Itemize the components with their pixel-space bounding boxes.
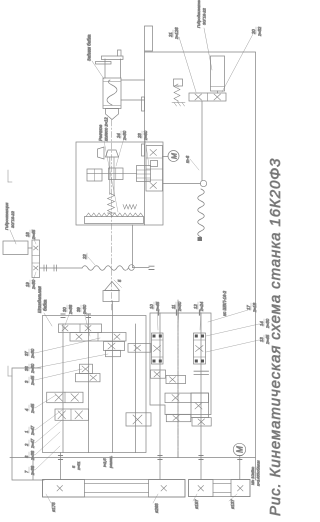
svg-text:4: 4 (24, 408, 29, 411)
AKC gear bar shaft3 left (192, 418, 211, 426)
headstock gear bar 7 (47, 392, 83, 403)
svg-text:z=30: z=30 (122, 130, 127, 141)
pump shaft stub (32, 458, 34, 480)
svg-text:М: М (171, 153, 178, 159)
svg-text:11: 11 (171, 305, 176, 309)
feed drive motor (top) (3, 241, 32, 255)
svg-text:17: 17 (246, 305, 251, 310)
svg-text:Гидростанция: Гидростанция (4, 202, 9, 230)
svg-text:19: 19 (25, 282, 30, 287)
svg-text:30: 30 (62, 307, 67, 312)
tailstock body with screw (103, 78, 121, 109)
shaft I stub: belt A top pulley to headstock (60, 453, 62, 480)
svg-text:z=126: z=126 (174, 27, 179, 40)
AKC gear bar shaft 2 (166, 375, 186, 383)
workpiece centerline (111, 120, 113, 310)
svg-text:18: 18 (25, 232, 30, 237)
worm-wheel gear block upper (87, 169, 102, 181)
apron splined shaft (110, 157, 114, 195)
svg-text:нс ШВП-16-2: нс ШВП-16-2 (222, 290, 227, 316)
small ratio labels near wall (71, 456, 113, 471)
svg-text:ремен.: ремен. (108, 456, 113, 469)
bevel gear pair (98, 147, 119, 159)
svg-text:z=47: z=47 (30, 425, 35, 436)
label: tailstock (87, 34, 105, 79)
feed gear strip (32, 240, 40, 278)
apron clutch block (109, 168, 124, 180)
svg-text:z=60: z=60 (30, 363, 35, 374)
svg-text:7: 7 (24, 470, 29, 473)
bearing hash marks on wall crossings (59, 456, 242, 460)
rack pinion teeth (123, 205, 137, 210)
svg-text:2: 2 (24, 443, 29, 447)
svg-text:1: 1 (24, 431, 29, 433)
svg-text:z=47: z=47 (30, 438, 35, 449)
footnote ratio labels below frame (206, 302, 270, 352)
svg-text:Реечное: Реечное (98, 124, 103, 141)
headstock gear bar 1 (shaft I-II double) (59, 324, 102, 333)
svg-text:39: 39 (76, 307, 81, 312)
tailstock barrel (96, 50, 124, 78)
caption (267, 158, 284, 516)
headstock gear bar 6 (76, 374, 101, 382)
svg-text:z=38: z=38 (30, 450, 35, 461)
apron / feed box (76, 142, 163, 225)
apron rack-pinion spring (108, 193, 116, 213)
svg-text:3: 3 (24, 380, 29, 383)
apron labels (98, 117, 149, 212)
svg-text:n=1465об/мин: n=1465об/мин (256, 460, 261, 486)
feed strip labels (25, 229, 95, 290)
tailstock quill tip (106, 109, 119, 120)
clutch block upper (with friction discs) (152, 333, 164, 364)
svg-text:z=32: z=32 (257, 26, 262, 37)
svg-text:Шпиндельная: Шпиндельная (37, 286, 42, 313)
rack bar (85, 213, 144, 224)
belt drive A (main, to headstock input shaft) (43, 480, 186, 498)
gear ratio labels above headstock (24, 304, 108, 476)
svg-text:12: 12 (193, 304, 198, 309)
svg-text:ø268: ø268 (154, 503, 159, 513)
label 16 z32 (222, 26, 262, 92)
bed way pads (142, 97, 145, 156)
svg-text:z=18: z=18 (252, 302, 257, 313)
tension spring with anchor (172, 79, 185, 106)
chuck body (103, 279, 122, 302)
headstock gear bar 2 (shaft II-spindle) (70, 333, 126, 342)
main motor M circle (233, 443, 245, 455)
svg-text:бабка: бабка (43, 299, 48, 311)
AKC shaft 1 (159, 313, 161, 458)
AKC shaft 2 (177, 300, 179, 458)
svg-text:37: 37 (24, 351, 29, 356)
gear ratio labels right of gearbox (149, 290, 227, 330)
apron gear strip (146, 146, 163, 192)
bearing marks housing right edge (61, 314, 91, 318)
svg-text:ø175: ø175 (51, 502, 56, 512)
svg-text:z=30: z=30 (265, 318, 270, 329)
sheet border marks (8, 170, 12, 376)
svg-text:22: 22 (82, 254, 87, 260)
coupling on shaft 3 (194, 371, 209, 374)
shaft stub: belt A bottom pulley to gearbox (159, 458, 161, 480)
machine outline frame (10, 26, 256, 480)
svg-text:Гидродвигатель: Гидродвигатель (196, 0, 201, 28)
svg-text:z=30: z=30 (30, 348, 35, 359)
svg-text:6: 6 (24, 455, 29, 458)
svg-text:20: 20 (251, 29, 256, 35)
gearbox (AKC) housing (150, 313, 211, 415)
headstock shaft II (88, 315, 90, 453)
svg-text:z=38: z=38 (30, 465, 35, 476)
headstock housing (43, 316, 147, 453)
svg-text:21: 21 (168, 32, 173, 38)
svg-text:5: 5 (117, 279, 122, 282)
rapid traverse motor M2 (163, 151, 180, 162)
svg-text:z=45: z=45 (265, 334, 270, 345)
svg-text:30Г18-22: 30Г18-22 (202, 7, 207, 25)
svg-text:ø137: ø137 (230, 499, 235, 509)
svg-text:z=30: z=30 (177, 301, 182, 312)
svg-text:колесо z=12: колесо z=12 (104, 117, 109, 141)
worm shaft (87, 173, 137, 175)
svg-text:z=30: z=30 (31, 279, 36, 290)
flexible shaft down from strip (40, 225, 155, 271)
svg-text:z=45: z=45 (30, 403, 35, 414)
svg-text:т-6: т-6 (185, 155, 190, 163)
headstock gear bar under spindle (128, 344, 151, 353)
AKC gear bar shaft2 left (166, 414, 191, 421)
gearbox shaft end marks (159, 310, 200, 315)
svg-text:М: М (236, 446, 245, 453)
svg-text:Задняя бабка: Задняя бабка (87, 34, 92, 61)
svg-text:23: 23 (137, 133, 142, 139)
label: main motor data (250, 460, 261, 486)
spindle front bearing block (106, 350, 121, 356)
tailstock base (121, 80, 145, 100)
apron worm (137, 166, 151, 182)
Z hydraulic drive motor (211, 56, 225, 93)
AKC gear bar on shafts 2-3 (L-block) (165, 393, 209, 418)
headstock gear bar 9 (55, 409, 89, 420)
belt drive B (motor to gearbox input) (189, 480, 250, 497)
svg-text:i=2,5: i=2,5 (102, 458, 107, 467)
headstock shaft IV (135, 324, 137, 453)
svg-text:z=38: z=38 (68, 304, 73, 315)
svg-text:14: 14 (259, 321, 264, 326)
svg-text:30Г18-22: 30Г18-22 (10, 210, 15, 228)
shaft stub: belt B top pulley to gearbox (200, 458, 202, 480)
AKC shaft centerline (177, 300, 179, 458)
svg-text:Мэ 10кВт: Мэ 10кВт (250, 466, 255, 485)
svg-text:z=51: z=51 (76, 461, 81, 471)
label 21 z126 (168, 27, 196, 92)
headstock gear bar 5 (80, 364, 93, 373)
AKC gear bar below clutch 1 (151, 370, 166, 378)
svg-text:z=60: z=60 (143, 130, 148, 141)
svg-text:z=45: z=45 (155, 301, 160, 312)
Z ball screw (163, 101, 207, 241)
main motor M shaft stub (239, 456, 241, 480)
svg-text:10: 10 (149, 304, 154, 309)
svg-text:ø197: ø197 (194, 499, 199, 509)
AKC shaft 3 (200, 313, 202, 458)
svg-text:24: 24 (116, 133, 121, 139)
spindle shaft (112, 301, 114, 453)
headstock shaft I (62, 324, 64, 453)
headstock gear bar 11 (126, 413, 151, 426)
label: headstock (37, 286, 52, 326)
label: hydraulic station (4, 202, 16, 244)
Z drive gear bar (189, 93, 226, 101)
svg-text:13: 13 (259, 337, 264, 342)
pulley diameter labels (46, 494, 237, 513)
svg-text:z=45: z=45 (30, 375, 35, 386)
label: hydraulic drive (bottom right) (196, 0, 212, 70)
svg-text:36: 36 (24, 366, 29, 371)
spindle gear cluster (104, 342, 125, 351)
clutch block lower (with friction discs) (194, 333, 206, 364)
